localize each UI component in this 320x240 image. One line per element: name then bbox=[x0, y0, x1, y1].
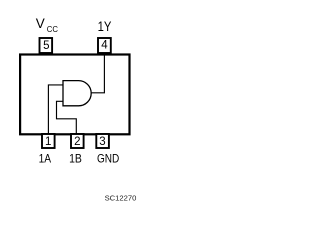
svg-text:3: 3 bbox=[99, 136, 105, 148]
svg-text:1Y: 1Y bbox=[98, 19, 112, 34]
AND gate G1 bbox=[63, 81, 91, 106]
svg-text:4: 4 bbox=[101, 40, 108, 52]
svg-text:1: 1 bbox=[45, 136, 51, 148]
svg-text:GND: GND bbox=[97, 152, 120, 166]
wire: output Y from gate to pin 4 bbox=[91, 52, 105, 93]
svg-text:1A: 1A bbox=[39, 152, 52, 166]
pin 3 box bbox=[96, 134, 109, 148]
svg-text:5: 5 bbox=[43, 40, 49, 52]
wire: input B from gate to pin 2 bbox=[57, 101, 77, 134]
svg-text:SC12270: SC12270 bbox=[105, 193, 137, 202]
svg-text:1B: 1B bbox=[69, 152, 82, 166]
svg-text:CC: CC bbox=[47, 24, 58, 34]
IC package body U1 bbox=[20, 55, 129, 135]
pin 5 box bbox=[40, 38, 53, 53]
pin 2 box bbox=[71, 134, 84, 148]
pin 1 box bbox=[42, 134, 55, 148]
pin 4 box bbox=[98, 38, 111, 53]
svg-text:V: V bbox=[36, 16, 45, 31]
wire: input A from gate to pin 1 bbox=[48, 85, 63, 134]
svg-text:2: 2 bbox=[74, 136, 80, 148]
